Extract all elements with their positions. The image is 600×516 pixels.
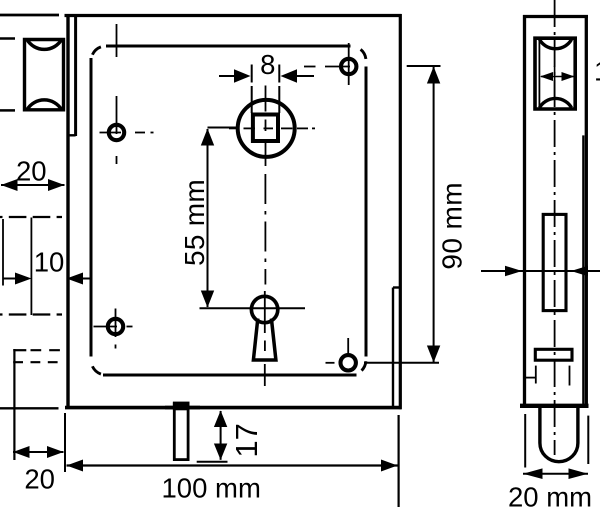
- follower hub side view: [543, 214, 566, 310]
- screw hole bottom-left centerlines: [94, 309, 133, 349]
- strike pocket vertical line: [13, 349, 15, 460]
- dim 20mm line: [523, 473, 588, 475]
- dim 20 top-left line: [1, 184, 65, 186]
- faceplate inner line: [74, 16, 77, 136]
- dim 90mm line: [364, 66, 441, 363]
- cover plate step line right: [392, 288, 394, 407]
- mortise hidden left vertical: [2, 219, 4, 286]
- latch bolt side top arc: [540, 40, 572, 49]
- side view outer right edge: [585, 15, 588, 405]
- dim 55mm line: [200, 128, 306, 309]
- dim 20 bottom-left line: [13, 451, 64, 453]
- lock case outer bottom edge: [65, 406, 402, 410]
- svg-text:20: 20: [16, 155, 47, 186]
- svg-text:10: 10: [34, 247, 65, 278]
- screw hole top-right: [341, 59, 356, 74]
- keyhole plate side view: [535, 349, 572, 360]
- bottom bolt side view: [540, 405, 578, 462]
- latch bolt front view body: [25, 40, 64, 110]
- svg-text:55 mm: 55 mm: [179, 179, 210, 266]
- dim 20 bottom-left arrows: [13, 446, 30, 458]
- screw hole top-right centerlines: [304, 43, 350, 85]
- side depth dim arrows: [505, 266, 522, 277]
- inner contour corner arc top-left: [92, 47, 101, 55]
- latch width dim arrows: [540, 72, 553, 81]
- bottom bolt stub: [174, 403, 188, 460]
- svg-text:100 mm: 100 mm: [162, 473, 261, 504]
- inner contour top line: [106, 45, 351, 48]
- lock case outer right edge: [399, 14, 402, 409]
- mortise hidden dashes middle-left: [0, 216, 62, 218]
- dim 8 lines: [219, 65, 314, 114]
- keyhole shaft: [253, 319, 276, 361]
- svg-text:90 mm: 90 mm: [437, 182, 468, 270]
- door edge line bottom left: [0, 407, 59, 409]
- lock case outer top edge: [65, 14, 402, 17]
- latch bolt bottom concave arc: [27, 100, 62, 110]
- dim 100mm arrows: [67, 460, 84, 472]
- screw hole top-left: [109, 125, 124, 140]
- spindle centerline vertical: [265, 86, 267, 167]
- lock case outer left edge: [66, 14, 69, 407]
- inner contour corner arc bottom-right: [362, 361, 366, 370]
- strike pocket top solid+dashed: [13, 349, 26, 351]
- keyhole circle: [251, 296, 277, 322]
- dim 8 arrows: [234, 69, 251, 82]
- door edge line top left: [0, 14, 59, 17]
- screw hole bottom-right: [341, 355, 356, 370]
- dim 55mm arrows: [201, 129, 214, 146]
- latch width dim line: [541, 76, 575, 78]
- svg-text:8: 8: [260, 49, 275, 80]
- dim 10 arrows: [15, 273, 32, 285]
- svg-text:14: 14: [594, 56, 600, 87]
- latch hidden edge dash top: [0, 37, 15, 40]
- screw hole top-left centerlines: [100, 24, 154, 164]
- inner contour bottom line: [103, 374, 357, 377]
- spindle follower circle: [238, 100, 295, 157]
- inner contour corner arc top-right: [361, 49, 366, 59]
- side view outer top edge: [523, 15, 588, 18]
- latch bolt side inner left line: [538, 38, 540, 109]
- dim 20mm arrows: [523, 468, 543, 479]
- side view centerline: [554, 0, 556, 455]
- lock case bottom edge over stub: [165, 406, 200, 410]
- latch width vertical tick: [554, 66, 556, 98]
- latch bolt side bottom arc: [540, 98, 572, 107]
- dim 17 line: [220, 411, 222, 460]
- dim 17 arrows: [214, 411, 227, 428]
- svg-text:20: 20: [24, 464, 55, 495]
- inner contour corner arc bottom-left: [92, 366, 101, 374]
- side view step line: [582, 135, 584, 404]
- dim 90mm arrows: [427, 67, 440, 84]
- latch bolt side view body: [535, 38, 575, 109]
- strike pocket lower dashed: [13, 361, 61, 363]
- side view outer bottom edge: [520, 404, 589, 408]
- dim 17 extension: [197, 461, 228, 463]
- dim 20/100 shared extension: [64, 413, 66, 472]
- dim 20 top-left arrows: [1, 179, 18, 191]
- inner contour right line: [365, 67, 368, 357]
- centerline spindle to keyhole: [264, 174, 267, 386]
- svg-text:20 mm: 20 mm: [508, 482, 592, 513]
- side depth dim line: [481, 270, 600, 272]
- spindle square hole: [253, 115, 278, 142]
- cover plate step connector: [393, 286, 399, 288]
- svg-text:17: 17: [229, 423, 264, 457]
- faceplate connector: [67, 134, 76, 136]
- inner contour left line: [90, 58, 93, 357]
- dim 100mm right extension: [398, 415, 400, 507]
- latch bolt top concave arc: [27, 39, 62, 49]
- screw hole bottom-left: [108, 319, 123, 334]
- screw hole bottom-right centerlines: [326, 338, 349, 363]
- dim 20mm extensions: [524, 414, 526, 468]
- bottom bolt stub top band: [173, 402, 190, 410]
- spindle centerline horizontal: [229, 127, 315, 129]
- dim 100mm line: [67, 464, 398, 466]
- dim 10 lines: [3, 218, 91, 316]
- side view outer left edge: [523, 15, 526, 405]
- latch hidden edge dash bottom: [0, 109, 15, 112]
- hidden ticks below keyhole plate: [526, 366, 570, 386]
